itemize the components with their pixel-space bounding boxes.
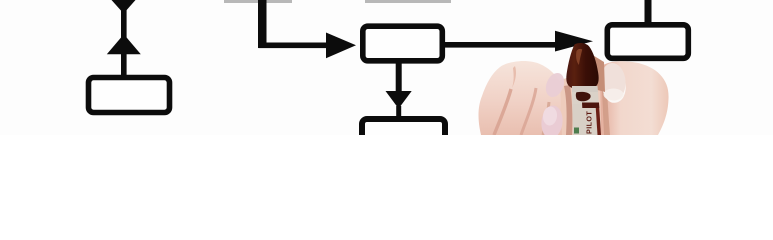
shadow skin between marker and index finger xyxy=(591,54,605,92)
hand silhouette (knuckles + palm mass) xyxy=(479,61,568,135)
box B4 (right) xyxy=(607,25,688,59)
wire: left vertical line xyxy=(121,8,127,78)
arrowhead right (being drawn) xyxy=(555,31,593,52)
marker label right stripe xyxy=(596,104,602,135)
cut-off box bottom edge (gray remnant, right) xyxy=(365,0,451,3)
index finger xyxy=(600,61,669,135)
arrowhead right (into middle box) xyxy=(326,33,356,59)
marker green mark xyxy=(574,128,579,134)
svg-text:PILOT: PILOT xyxy=(585,111,594,134)
wire: horizontal into middle box xyxy=(259,43,328,49)
index finger inner shadow along marker xyxy=(601,70,610,135)
index fingernail free edge glow xyxy=(604,89,624,101)
knuckle shading between fingers xyxy=(512,66,516,88)
arrowhead down (into bottom box) xyxy=(386,91,412,109)
marker white band with logo xyxy=(572,92,599,104)
front fingernail highlight xyxy=(542,106,558,126)
box B2 (middle) xyxy=(363,26,443,61)
wire: horizontal from middle box to right xyxy=(442,42,557,48)
wire: stem into bottom box xyxy=(396,106,401,117)
wire: below middle box xyxy=(396,60,402,92)
cut-off box bottom edge (gray remnant, left) xyxy=(224,0,292,3)
front fingernail (lower) xyxy=(540,104,564,139)
arrowhead down (top, cut off) xyxy=(112,0,136,14)
wire: mid vertical line from top xyxy=(258,0,267,48)
hand web behind marker xyxy=(560,66,612,135)
crease left of front fingernail xyxy=(543,102,549,135)
knuckle crease 1 xyxy=(494,89,511,135)
arrowhead up (mid-left) xyxy=(107,34,141,54)
marker dark band below logo xyxy=(582,103,599,109)
knuckle crease 2 xyxy=(521,88,536,135)
index fingernail free edge xyxy=(602,83,626,103)
marker collar ring xyxy=(572,86,598,92)
box B1 (left) xyxy=(89,78,170,113)
box B3 (bottom, cut off) xyxy=(362,119,445,149)
marker tip highlight xyxy=(576,49,582,65)
marker logo blob xyxy=(576,92,591,101)
shadow left of marker xyxy=(564,85,572,135)
thumb nail (upper, near marker tip) xyxy=(542,70,567,100)
wire: right vertical from top xyxy=(645,0,652,24)
marker cone tip xyxy=(566,43,598,89)
index fingernail xyxy=(599,62,627,101)
marker barrel label xyxy=(572,104,601,135)
